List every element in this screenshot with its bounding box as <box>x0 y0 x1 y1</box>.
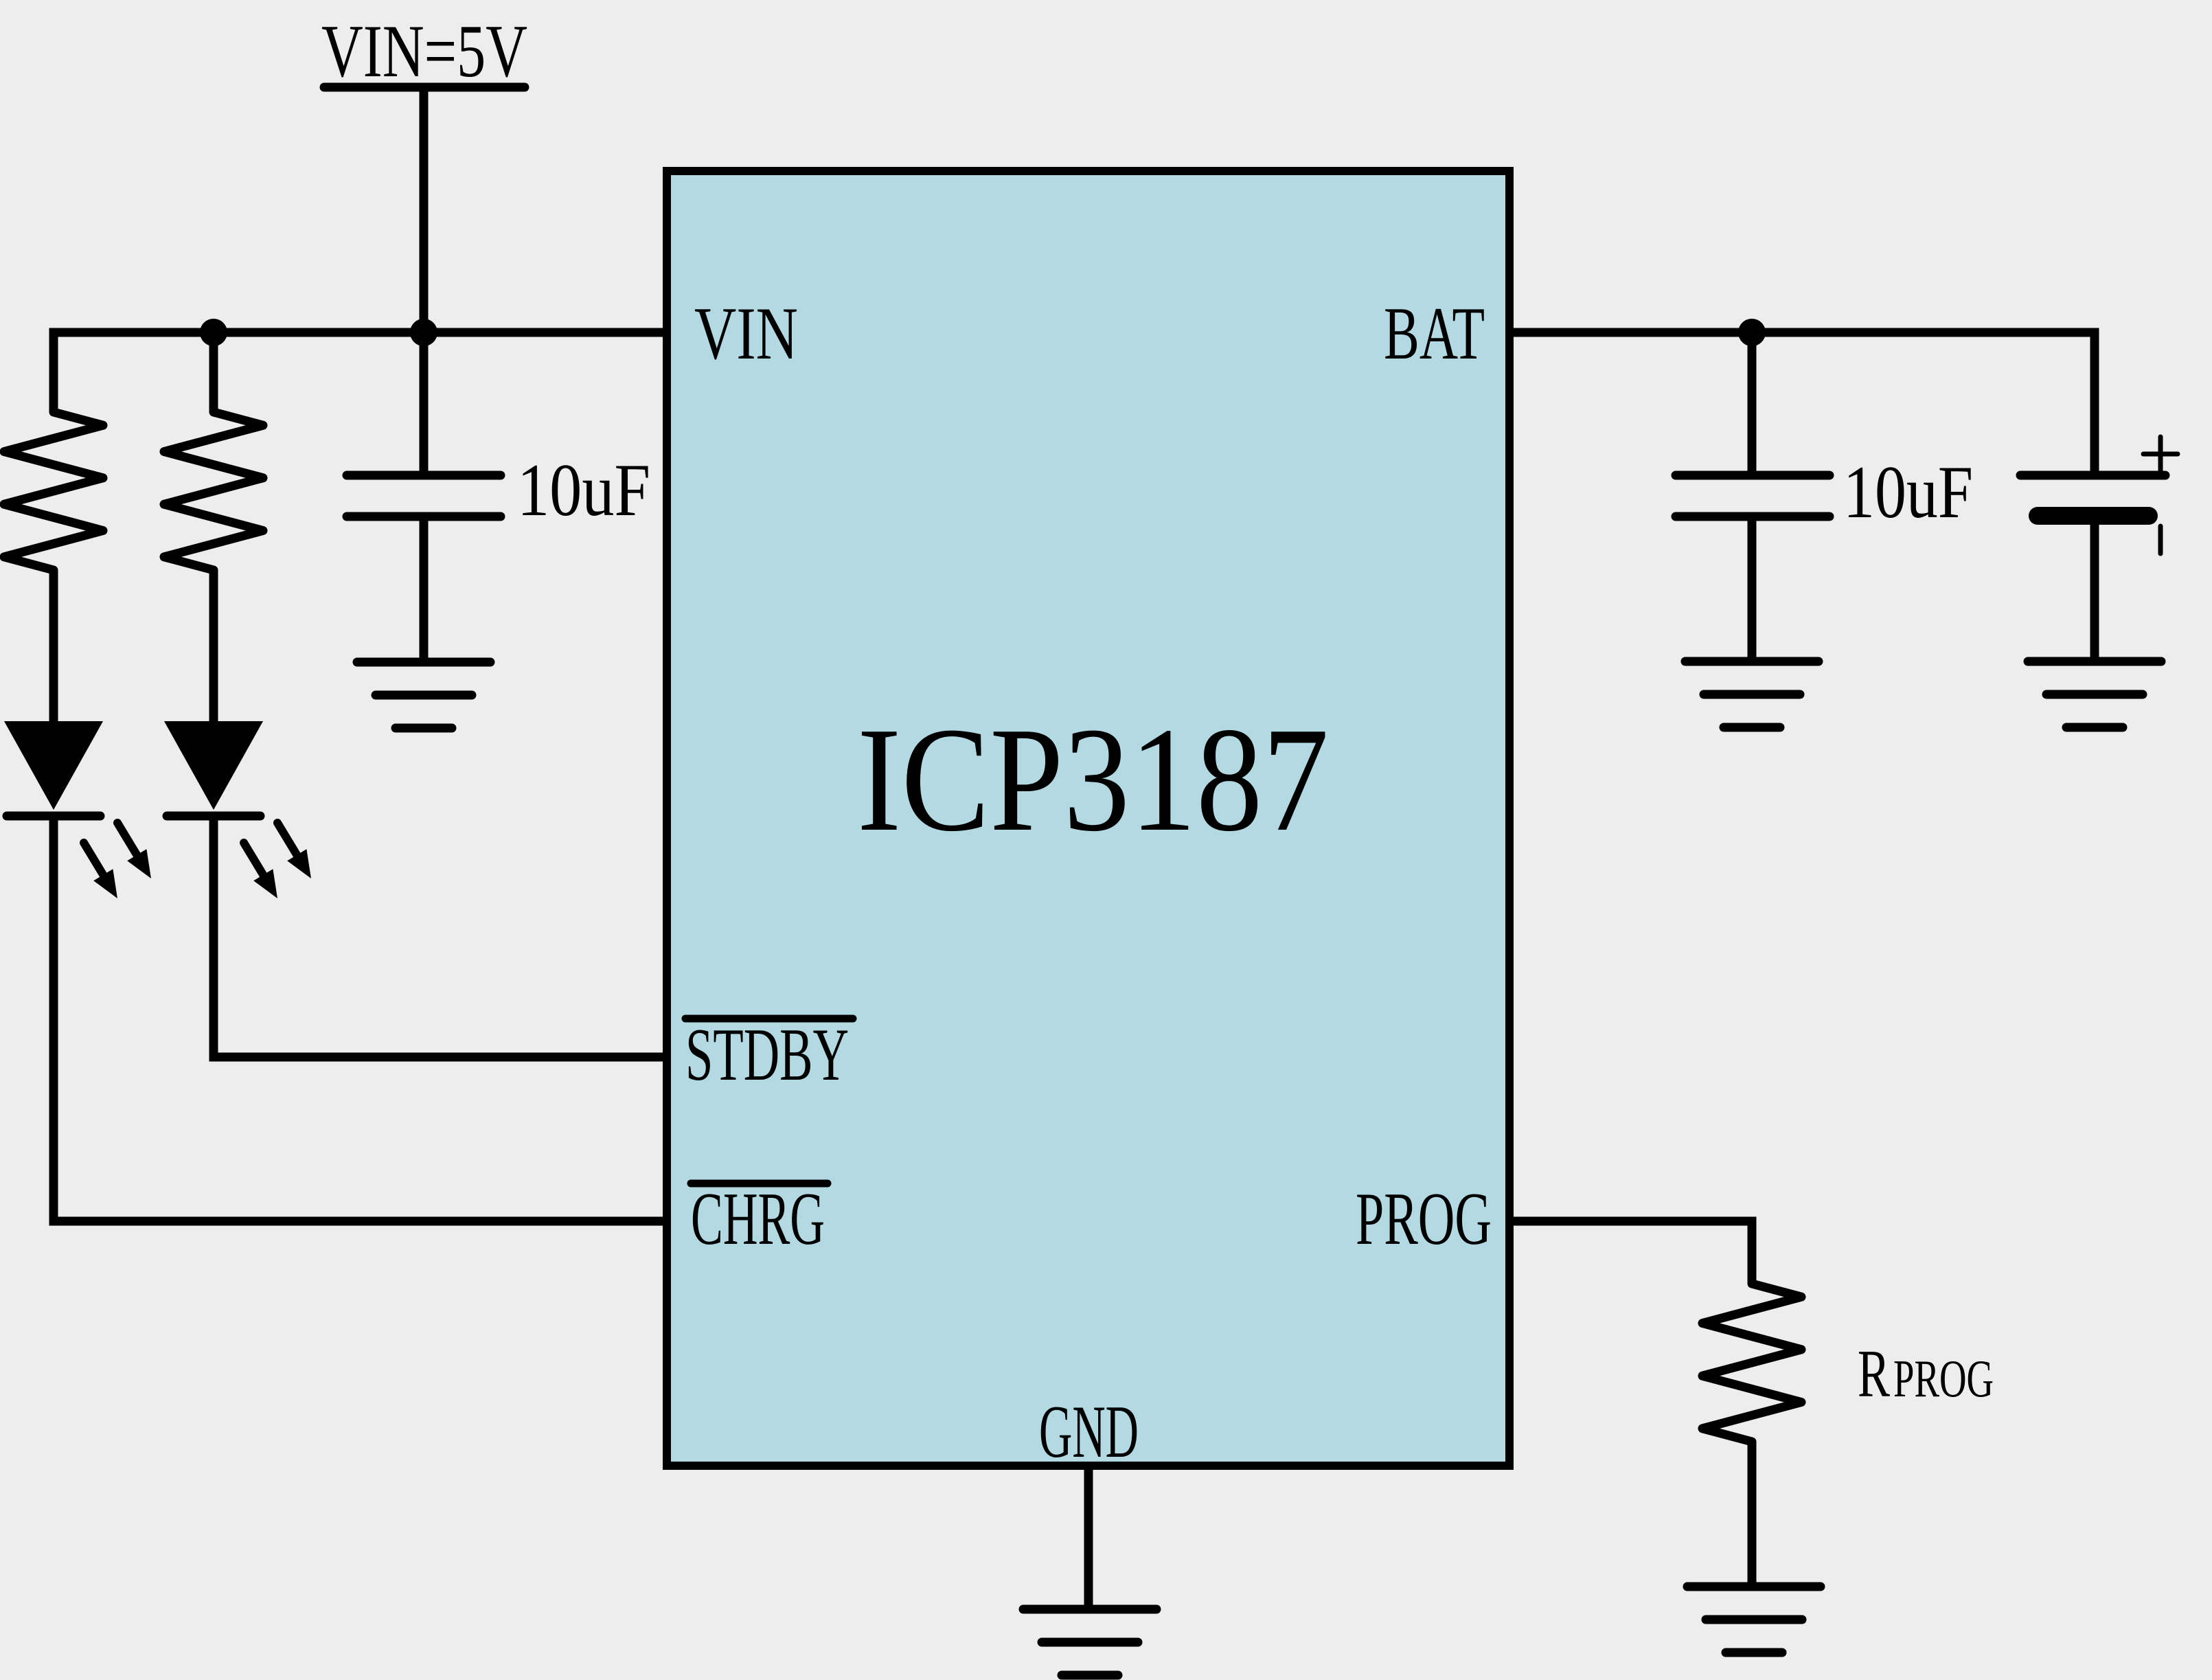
resistor R2 <box>164 412 263 570</box>
wire LED2 to STDBY pin <box>214 816 667 1057</box>
capacitor C1 plate bottom <box>347 512 501 521</box>
wire Rprog to ground <box>1748 1442 1757 1587</box>
junction dot R2 branch <box>200 319 227 346</box>
svg-text:PROG: PROG <box>1893 1349 1994 1408</box>
ground GND pin <box>1023 1609 1156 1675</box>
svg-text:VIN=5V: VIN=5V <box>321 10 527 93</box>
junction dot C2 branch <box>1738 319 1766 346</box>
wire LED1 to CHRG pin <box>54 816 667 1221</box>
label Rprog <box>1858 1337 1994 1411</box>
svg-text:STDBY: STDBY <box>685 1013 849 1096</box>
battery BT1 negative plate <box>2038 507 2149 525</box>
wire C2 to ground <box>1748 517 1757 661</box>
wire C2 stub <box>1748 332 1757 475</box>
wire GND pin to ground <box>1084 1466 1093 1609</box>
capacitor C1 plate top <box>347 471 501 480</box>
capacitor C2 plate bottom <box>1676 512 1829 521</box>
wire BAT net horizontal <box>1509 332 2095 475</box>
wire main VIN net horizontal <box>54 332 667 412</box>
LED D1 arrow 2 <box>117 823 151 878</box>
svg-text:10uF: 10uF <box>517 449 650 532</box>
capacitor C2 plate top <box>1676 471 1829 480</box>
ground C1 <box>357 662 490 728</box>
svg-text:10uF: 10uF <box>1843 451 1973 534</box>
junction dot VIN stub <box>410 319 437 346</box>
svg-text:BAT: BAT <box>1384 292 1485 375</box>
LED D1 triangle <box>4 721 103 810</box>
ground C2 <box>1685 661 1818 727</box>
svg-text:PROG: PROG <box>1356 1177 1492 1260</box>
svg-text:ICP3187: ICP3187 <box>857 697 1329 863</box>
CHRG overline <box>691 1180 828 1188</box>
wire C1 stub <box>420 332 429 475</box>
STDBY overline <box>685 1015 853 1023</box>
resistor R1 <box>4 412 103 570</box>
wire R2 to LED2 <box>209 570 218 721</box>
resistor Rprog <box>1702 1284 1801 1442</box>
wire R2 stub <box>209 332 218 412</box>
IC U1 ICP3187 body <box>667 171 1509 1466</box>
battery BT1 positive plate <box>2020 471 2165 480</box>
wire R1 to LED1 <box>49 570 58 721</box>
wire PROG to Rprog <box>1509 1221 1752 1284</box>
battery plus sign <box>2143 437 2178 471</box>
LED D1 cathode bar <box>7 812 100 821</box>
wire VIN=5V stub down <box>420 87 429 332</box>
LED D2 triangle <box>164 721 263 810</box>
svg-text:VIN: VIN <box>694 292 798 375</box>
ground Rprog <box>1687 1587 1821 1653</box>
svg-text:GND: GND <box>1039 1390 1139 1473</box>
LED D2 cathode bar <box>167 812 260 821</box>
power rail bar VIN=5V <box>324 83 525 92</box>
svg-text:CHRG: CHRG <box>691 1177 825 1260</box>
ground battery <box>2028 661 2161 727</box>
wire battery to ground <box>2090 525 2099 661</box>
battery minus sign <box>2158 526 2163 554</box>
svg-text:R: R <box>1858 1337 1890 1411</box>
LED D2 arrow 2 <box>277 823 311 878</box>
wire C1 to ground <box>420 517 429 662</box>
LED D2 arrow 1 <box>244 843 277 898</box>
LED D1 arrow 1 <box>84 843 117 898</box>
